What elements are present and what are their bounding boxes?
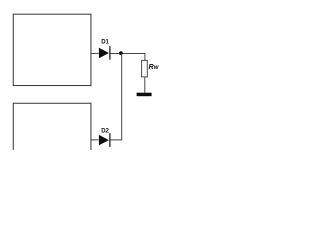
svg-text:Rw: Rw xyxy=(149,62,159,71)
ground xyxy=(137,93,152,97)
block box 1 xyxy=(13,14,91,85)
wire D1 cathode to resistor top xyxy=(111,53,145,60)
resistor Rw xyxy=(142,60,148,77)
svg-text:D2: D2 xyxy=(101,128,109,134)
node junction dot xyxy=(119,51,123,55)
svg-text:D1: D1 xyxy=(101,40,109,46)
diode D1 xyxy=(99,46,111,60)
wire node to D2 cathode xyxy=(111,53,122,139)
wire box1 to D1 anode xyxy=(91,52,99,54)
wire box2 to D2 anode xyxy=(91,139,99,141)
diode D2 xyxy=(99,133,111,147)
block box 2 xyxy=(13,103,91,150)
wire resistor bottom to ground xyxy=(144,77,146,93)
